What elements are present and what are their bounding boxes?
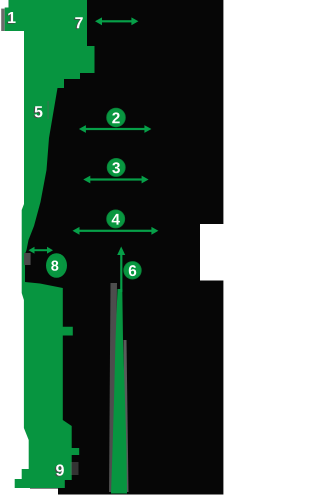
label 5 (sleeve) (33, 106, 42, 118)
gray patch right of label 9 (71, 462, 79, 475)
gray sliver right of inseam wedge (124, 340, 129, 492)
dark seam line near label 5 (47, 101, 49, 119)
gray shadow strip left of label 1 (1, 9, 4, 31)
circle 3 (waist) (107, 158, 125, 176)
gray patch at wrist (24, 253, 31, 265)
arrow 4 (hip) (73, 227, 159, 235)
label 9 (55, 464, 64, 476)
green inseam wedge between legs (111, 289, 127, 494)
circle 4 (hip) (107, 210, 125, 228)
green figure (head block, band, shoulder nub, hip nub, heel bump, foot) (5, 0, 95, 488)
arrow 7 (neck) (95, 17, 138, 25)
circle 2 (chest) (107, 108, 126, 127)
label 7 (neck) (74, 17, 83, 29)
green hand blob behind circle 8 (46, 253, 67, 278)
label 1 (height) (7, 12, 16, 24)
circle 6 (inseam) (124, 262, 142, 280)
black figure silhouette (9, 0, 224, 495)
arrow 6 shaft and head (inseam, vertical) (117, 247, 125, 293)
arrow 2 (chest) (79, 125, 151, 133)
arrow 3 (waist) (83, 176, 148, 184)
gray strip left of inseam wedge (109, 283, 117, 492)
circle 8 (wrist) (46, 257, 63, 274)
arrow 8 (wrist) (29, 247, 54, 254)
